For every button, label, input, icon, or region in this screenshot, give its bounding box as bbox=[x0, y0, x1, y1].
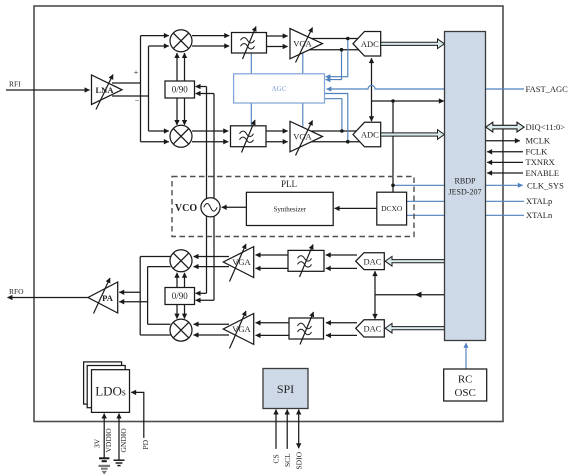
svg-text:FCLK: FCLK bbox=[526, 147, 549, 157]
filter TX2 bbox=[289, 312, 324, 345]
svg-text:SDIO: SDIO bbox=[295, 451, 304, 469]
wire MCLK bbox=[486, 140, 520, 142]
junction dot ADC2 bottom tap bbox=[346, 140, 350, 144]
wire TX combine vertical B bbox=[147, 267, 149, 325]
svg-text:PA: PA bbox=[102, 293, 114, 303]
filter RX1 bbox=[232, 27, 267, 60]
svg-text:RC: RC bbox=[458, 374, 473, 386]
bus DIQ bidirectional bbox=[486, 122, 524, 132]
svg-text:ADC: ADC bbox=[361, 39, 379, 49]
AGC block bbox=[234, 74, 325, 103]
wire LNA - output bbox=[112, 95, 149, 97]
svg-text:MCLK: MCLK bbox=[526, 136, 551, 146]
wire LO to TX 0/90 b bbox=[196, 299, 214, 301]
PLL dashed enclosure bbox=[172, 177, 414, 237]
svg-text:AGC: AGC bbox=[272, 85, 287, 93]
wire CS bbox=[275, 410, 277, 449]
svg-text:Synthesizer: Synthesizer bbox=[273, 205, 306, 213]
wire RX mixer1 out I+ bbox=[192, 35, 229, 37]
wire TX 0/90 down to mixer2 bbox=[176, 305, 178, 319]
DAC 1 bbox=[356, 253, 385, 270]
wire CLK_SYS (blue) bbox=[393, 184, 523, 186]
bus ADC1 to RBDP bbox=[381, 39, 445, 49]
wire VDDIO supply bbox=[103, 414, 105, 458]
wire RX 0/90 up to mixer1 bbox=[176, 53, 178, 81]
svg-text:PLL: PLL bbox=[281, 179, 297, 189]
svg-text:DIQ<11:0>: DIQ<11:0> bbox=[526, 122, 566, 132]
svg-text:CS: CS bbox=[272, 454, 281, 463]
ground symbol 3V/VDDIO bbox=[99, 458, 111, 474]
svg-text:OSC: OSC bbox=[454, 387, 475, 399]
LDOs stacked blocks bbox=[84, 362, 130, 413]
svg-text:SCL: SCL bbox=[283, 453, 292, 467]
wire TX combine vertical A bbox=[139, 257, 141, 336]
svg-text:SPI: SPI bbox=[277, 382, 294, 396]
wire AGC ctrl VGA2 (blue) bbox=[302, 103, 304, 127]
bus RBDP to DAC1 bbox=[385, 256, 444, 266]
junction dot clock line bbox=[391, 99, 395, 103]
VCO oscillator bbox=[175, 198, 220, 217]
DCXO block bbox=[377, 192, 407, 225]
svg-text:0/90: 0/90 bbox=[172, 291, 189, 301]
wire to RX mixer2 upper bbox=[149, 130, 169, 132]
DAC 2 bbox=[356, 320, 385, 337]
LNA amplifier bbox=[92, 75, 123, 110]
VGA RX2 bbox=[290, 121, 323, 156]
wire TX VGA2 to mixer2 bbox=[194, 323, 229, 325]
VGA TX2 bbox=[223, 311, 253, 349]
svg-text:DAC: DAC bbox=[364, 324, 382, 334]
wire TX mixer2 outputs bbox=[148, 323, 171, 325]
wire LO to TX 0/90 a bbox=[196, 292, 207, 294]
synthesizer block bbox=[246, 192, 333, 225]
wire XTALn (blue) bbox=[407, 214, 524, 216]
svg-text:XTALn: XTALn bbox=[526, 210, 553, 220]
wire LO to RX 0/90 b bbox=[196, 93, 214, 95]
wire TX mixer1 outputs bbox=[140, 256, 170, 258]
junction dot ADC1 bottom tap bbox=[340, 48, 344, 52]
ADC 1 bbox=[353, 32, 381, 57]
svg-text:PD: PD bbox=[141, 439, 150, 449]
wire TX VGA1 to mixer1 bbox=[194, 256, 229, 258]
SPI block bbox=[263, 369, 308, 409]
wire VGA1 to ADC1 bbox=[312, 38, 359, 40]
wire TXNRX bbox=[487, 161, 523, 163]
svg-text:VGA: VGA bbox=[232, 257, 251, 267]
wire TX filter2 to VGA2 bbox=[256, 322, 289, 324]
svg-text:VDDIO: VDDIO bbox=[104, 428, 113, 453]
ADC 2 bbox=[353, 122, 381, 147]
svg-text:JESD-207: JESD-207 bbox=[449, 188, 482, 197]
wire riser I bbox=[140, 36, 142, 142]
wire AGC sense ADC1 top line (blue) bbox=[326, 39, 348, 77]
wire PA input bottom bbox=[119, 301, 147, 303]
wire GNDIO bbox=[118, 414, 120, 460]
wire to RX mixer1 upper bbox=[141, 35, 169, 37]
bus ADC2 to RBDP bbox=[381, 130, 445, 140]
wire filter2 to VGA2 bbox=[266, 130, 288, 132]
wire RX mixer1 out I- bbox=[192, 45, 229, 47]
wire SCL bbox=[286, 410, 288, 449]
mixer RX2 bbox=[170, 125, 192, 147]
wire ADC1-ADC2 clock link bbox=[371, 58, 373, 101]
svg-text:+: + bbox=[134, 68, 139, 77]
svg-text:DAC: DAC bbox=[364, 256, 382, 266]
wire AGC to ADC2 bottom line (blue) bbox=[325, 94, 348, 141]
wire FAST_AGC (blue with hop) bbox=[327, 85, 524, 89]
wire AGC tap VGA1 (blue) bbox=[302, 53, 304, 74]
junction dot CLK_SYS tap bbox=[391, 184, 395, 188]
VGA RX1 bbox=[290, 28, 323, 63]
RX 0/90 phase splitter bbox=[165, 81, 195, 98]
wire TX filter1 to VGA1 bbox=[256, 254, 288, 256]
svg-text:LDOs: LDOs bbox=[95, 384, 126, 399]
svg-text:XTALp: XTALp bbox=[526, 196, 552, 206]
svg-text:−: − bbox=[135, 96, 140, 105]
svg-text:ENABLE: ENABLE bbox=[526, 168, 560, 178]
svg-text:0/90: 0/90 bbox=[172, 85, 189, 95]
wire AGC to ADC2 top line (blue) bbox=[325, 99, 342, 130]
wire RFI input bbox=[6, 89, 90, 91]
wire AGC sense ADC1 bottom line (blue) bbox=[326, 50, 342, 80]
wire synth to VCO bbox=[222, 206, 247, 208]
wire PD bbox=[131, 392, 144, 438]
wire filter1 to VGA1 bbox=[267, 35, 288, 37]
wire to RX mixer1 lower bbox=[149, 45, 169, 47]
wire DAC1 to TX filter1 bbox=[326, 254, 357, 256]
svg-text:CLK_SYS: CLK_SYS bbox=[527, 180, 564, 190]
wire RFO output bbox=[8, 297, 89, 299]
wire to RX mixer2 lower bbox=[141, 141, 169, 143]
wire RX 0/90 down to mixer2 bbox=[176, 98, 178, 125]
svg-text:FAST_AGC: FAST_AGC bbox=[526, 84, 569, 94]
wire DCXO to synth bbox=[335, 207, 377, 209]
svg-text:VGA: VGA bbox=[232, 324, 251, 334]
wire RC OSC to RBDP (blue) bbox=[465, 343, 467, 369]
svg-text:RBDP: RBDP bbox=[455, 177, 476, 186]
svg-text:DCXO: DCXO bbox=[381, 204, 403, 213]
wire LO to RX 0/90 a bbox=[196, 86, 207, 88]
filter TX1 bbox=[288, 245, 324, 278]
RC OSC block bbox=[444, 369, 487, 401]
wire DAC clock from RBDP bbox=[375, 294, 445, 296]
svg-text:ADC: ADC bbox=[361, 130, 379, 140]
wire drop to DCXO bbox=[392, 101, 394, 192]
wire LO vertical 1 bbox=[206, 87, 208, 294]
junction dot ADC2 top tap bbox=[340, 129, 344, 133]
RBDP JESD-207 block bbox=[445, 32, 486, 341]
wire clock to RBDP bbox=[372, 100, 444, 102]
filter RX2 bbox=[231, 120, 267, 153]
wire DAC1-DAC2 link bbox=[374, 271, 376, 295]
svg-text:VCO: VCO bbox=[175, 203, 197, 214]
wire SDIO bidirectional bbox=[298, 410, 300, 449]
mixer TX2 bbox=[170, 319, 192, 341]
wire AGC ctrl filter2 (blue) bbox=[250, 103, 252, 126]
wire LNA + output bbox=[112, 82, 141, 84]
ground symbol GNDIO bbox=[114, 460, 125, 465]
chip outer border bbox=[34, 6, 503, 422]
wire ENABLE bbox=[487, 172, 523, 174]
VGA TX1 bbox=[223, 244, 253, 282]
svg-text:RFI: RFI bbox=[9, 80, 21, 89]
wire AGC tap filter1 (blue) bbox=[250, 53, 252, 74]
junction dot ADC1 top tap bbox=[346, 37, 350, 41]
bus RBDP to DAC2 bbox=[385, 323, 444, 333]
mixer RX1 bbox=[170, 30, 192, 52]
wire TX 0/90 up to mixer1 bbox=[176, 273, 178, 288]
wire FCLK bbox=[487, 151, 523, 153]
wire PA input top bbox=[119, 291, 140, 293]
arrowhead mid DAC clock bbox=[415, 292, 422, 298]
svg-text:RFO: RFO bbox=[9, 287, 24, 296]
svg-text:GNDIO: GNDIO bbox=[119, 428, 128, 453]
TX 0/90 phase splitter bbox=[165, 288, 195, 305]
wire LO vertical 2 bbox=[213, 94, 215, 301]
wire VGA2 to ADC2 bbox=[312, 130, 359, 132]
PA amplifier bbox=[88, 278, 118, 314]
svg-text:TXNRX: TXNRX bbox=[526, 157, 555, 167]
wire RX mixer2 out bbox=[192, 130, 228, 132]
wire DAC2 to TX filter2 bbox=[326, 322, 357, 324]
mixer TX1 bbox=[170, 250, 192, 272]
wire riser Q bbox=[148, 46, 150, 131]
svg-text:3V: 3V bbox=[93, 438, 102, 448]
wire XTALp (blue) bbox=[407, 200, 524, 202]
